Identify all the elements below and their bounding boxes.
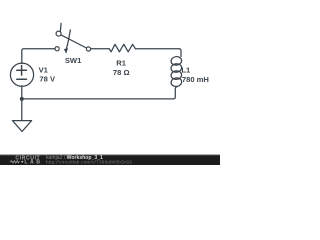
svg-text:LAB: LAB bbox=[24, 160, 42, 165]
svg-text:SW1: SW1 bbox=[65, 56, 82, 65]
svg-text:780 mH: 780 mH bbox=[182, 75, 209, 84]
svg-text:78 V: 78 V bbox=[39, 75, 56, 84]
svg-text:78 Ω: 78 Ω bbox=[113, 68, 130, 77]
svg-text:L1: L1 bbox=[181, 66, 191, 75]
svg-text:V1: V1 bbox=[39, 65, 49, 74]
svg-text:R1: R1 bbox=[116, 58, 126, 67]
svg-text:http://circuitlab.com/c/7366eb: http://circuitlab.com/c/7366ebk5b3c92 bbox=[46, 160, 132, 165]
